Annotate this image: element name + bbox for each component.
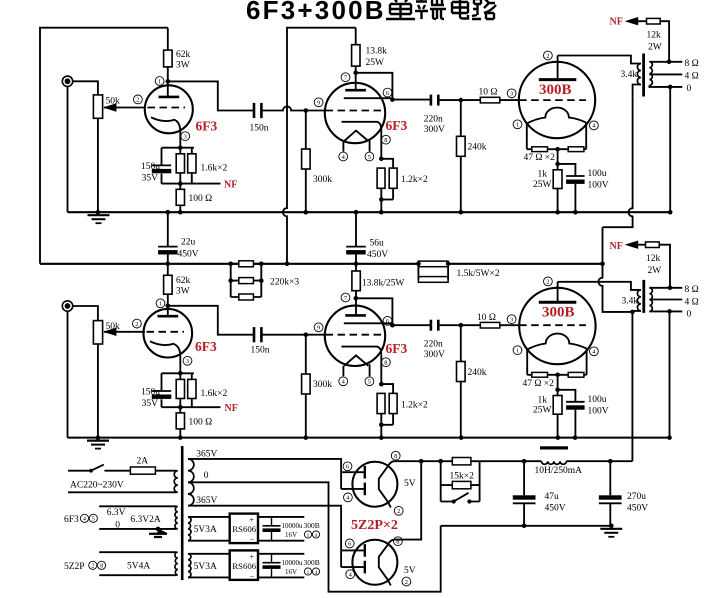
- node plate V1b junction: [353, 71, 358, 76]
- NF arrow ch1: [625, 17, 639, 25]
- label 47u 450V: [545, 492, 566, 514]
- wire grid node to 10 ohm: [461, 99, 481, 101]
- capacitor 56u 450V: [346, 247, 366, 255]
- label 62k 3W ch2: [176, 276, 191, 297]
- svg-text:6: 6: [386, 90, 389, 97]
- svg-text:10000u: 10000u: [282, 522, 304, 530]
- svg-text:10 Ω: 10 Ω: [479, 88, 498, 98]
- ground rail channel 1: [68, 211, 671, 213]
- wire PSU ground line: [441, 525, 612, 527]
- svg-text:3W: 3W: [176, 61, 190, 71]
- svg-text:2A: 2A: [137, 457, 149, 467]
- node 1.2k bottom: [379, 197, 393, 202]
- wire 150u branch ch2: [161, 373, 163, 407]
- wire 13.8k leads: [355, 28, 357, 90]
- resistor 47ohm right ch1: [568, 147, 584, 152]
- label 6F3 first triode ch1: [196, 119, 218, 134]
- label 5Z2P pins 2 8 heater: [64, 561, 106, 572]
- svg-text:100V: 100V: [588, 181, 609, 191]
- label 100u 100V ch1: [588, 169, 609, 191]
- node cathode box top ch2: [178, 371, 183, 376]
- wire HV 0 tap return: [188, 482, 441, 591]
- wire primary bottom ch1: [633, 85, 641, 97]
- label 100u 100V ch2: [588, 395, 609, 417]
- resistor 100 ohm NF (channel 2): [176, 413, 184, 429]
- wire choke to B+ riser: [566, 460, 632, 462]
- wire 12k to 8ohm tap ch1: [660, 21, 669, 62]
- svg-text:6F3: 6F3: [386, 341, 408, 356]
- pin 2 label V3a: [133, 319, 142, 328]
- wire 15k top line: [441, 460, 524, 462]
- svg-text:13.8k/25W: 13.8k/25W: [362, 279, 405, 289]
- svg-text:8 Ω: 8 Ω: [685, 59, 699, 69]
- wire 1.6k stubs: [180, 148, 192, 184]
- wire 300B plate to transformer ch2: [558, 282, 641, 290]
- svg-text:220n: 220n: [424, 340, 443, 350]
- resistor 1.6k right ch2: [188, 379, 196, 398]
- pin 1 label V1a: [155, 77, 164, 86]
- junction dots ground rail ch2: [96, 435, 672, 440]
- svg-text:2: 2: [135, 321, 138, 328]
- pin 8 label 5Z2P A: [391, 451, 400, 460]
- svg-text:300B: 300B: [304, 558, 320, 567]
- svg-text:5V3A: 5V3A: [194, 525, 217, 535]
- choke 10H/250mA coil: [542, 461, 567, 464]
- wire pot wiper from grid of V1a with arrow: [103, 103, 145, 111]
- 5Z2P B filament: [379, 545, 391, 585]
- resistor 47ohm left ch1: [532, 147, 548, 152]
- svg-text:3: 3: [510, 317, 513, 324]
- label 10H/250mA: [535, 466, 583, 476]
- 300B plate bar ch1: [539, 78, 577, 81]
- pin 4 label 5Z2P A: [344, 493, 353, 502]
- wire 100u bottom ch2: [574, 410, 576, 438]
- svg-text:300B: 300B: [542, 305, 575, 321]
- capacitor 150u 35V (channel 2): [152, 391, 172, 399]
- label 10 ohm ch1: [479, 88, 498, 98]
- svg-text:10 Ω: 10 Ω: [477, 313, 496, 323]
- label 50k ch2: [106, 322, 121, 332]
- 300B grid dashed ch1: [519, 99, 586, 101]
- rectifier RS606 #2: [230, 550, 258, 581]
- transformer T1 secondary coil ch1: [649, 62, 652, 86]
- svg-text:47 Ω ×2: 47 Ω ×2: [523, 379, 555, 389]
- node V1b output junction: [390, 97, 395, 102]
- wire V3a plate to 150n ch2: [168, 306, 253, 335]
- svg-text:1: 1: [307, 570, 310, 576]
- wire 1k bottom ch1: [557, 189, 559, 213]
- label NF ch2 cathode: [225, 403, 238, 414]
- capacitor 270u 450V: [599, 495, 622, 503]
- V1b heater lambda: [344, 131, 368, 141]
- triode V3a 6F3 envelope (channel 2): [144, 309, 193, 358]
- node 1.2k bottom ch2: [379, 423, 393, 428]
- pin 2 label 300B ch2: [544, 277, 553, 286]
- wire 150n to V1b grid with hop over B+ riser: [262, 106, 325, 110]
- svg-text:35V: 35V: [142, 174, 159, 184]
- input jack J2 (channel 2): [62, 301, 72, 311]
- resistor 13.8k/25W (channel 2): [352, 271, 360, 291]
- resistor 10 ohm grid stopper (channel 2): [480, 322, 500, 328]
- potentiometer 50k (channel 2): [93, 321, 102, 344]
- resistor 47ohm left ch2: [532, 372, 548, 377]
- wire output to 220n: [392, 99, 430, 101]
- label 220n 300V ch2: [424, 340, 445, 361]
- wire 22u leads: [167, 212, 169, 264]
- wire V1b cathode lead: [380, 130, 382, 159]
- wire 270u leads: [609, 461, 611, 526]
- svg-text:12k: 12k: [647, 31, 662, 41]
- svg-text:150u: 150u: [141, 387, 160, 397]
- V1b control grid dashed: [326, 110, 385, 112]
- wire 220k group links: [231, 264, 262, 297]
- node 15k left: [438, 459, 443, 464]
- resistor 62k 3W (channel 2): [164, 275, 173, 294]
- node 300k junction ch2: [304, 332, 309, 337]
- wire cathode bottom rail ch2: [162, 406, 197, 408]
- resistor 300k grid leak (channel 2): [302, 374, 311, 394]
- label 220n 300V: [424, 115, 445, 136]
- title CJK characters dan-duan-dian-lu: [386, 0, 496, 19]
- label 62k 3W: [176, 50, 191, 71]
- svg-text:5: 5: [368, 379, 371, 386]
- label 1.6kx2: [201, 164, 228, 174]
- wire 300B filament leads ch2: [527, 349, 586, 375]
- V1b cathode line: [342, 122, 382, 130]
- svg-text:6F3: 6F3: [195, 339, 217, 354]
- svg-text:0: 0: [204, 471, 209, 481]
- transformer T1 primary coil ch1: [637, 64, 640, 85]
- svg-text:3W: 3W: [176, 287, 190, 297]
- switch S2 15k bypass: [441, 493, 480, 504]
- svg-text:5Z2P: 5Z2P: [64, 562, 85, 572]
- resistor 13.8k 25W plate load (channel 1): [352, 45, 360, 66]
- pin 6 label 5Z2P B: [345, 539, 354, 548]
- svg-text:15k×2: 15k×2: [450, 471, 475, 481]
- V1a grid dashed line: [148, 107, 186, 109]
- resistor 220k b: [239, 278, 254, 284]
- wire 1.5k links: [418, 264, 448, 280]
- wire 47ohm links ch1: [527, 148, 586, 150]
- node 0 tap ch1: [668, 85, 673, 90]
- wire 62k leads: [167, 28, 169, 97]
- wire jack2 sleeve to ground rail: [67, 311, 69, 437]
- ground rail channel 2: [68, 437, 670, 439]
- label 1.6kx2 ch2: [201, 389, 228, 399]
- label NF ch1 cathode: [224, 180, 237, 191]
- capacitor 22u 450V: [158, 247, 178, 255]
- label 6F3 pins 4 5 heater: [64, 514, 97, 525]
- label 300B pins 1 4 heater #1: [304, 521, 320, 539]
- wire 300k ch2 leads: [305, 335, 307, 438]
- resistor 240k grid leak 300B (channel 1): [457, 136, 466, 156]
- wire 300B plate to transformer ch1: [558, 56, 641, 64]
- label 240k ch1: [468, 143, 487, 153]
- svg-text:450V: 450V: [367, 250, 388, 260]
- wire NF tap ch2: [196, 406, 220, 408]
- node 56u bottom: [354, 262, 359, 267]
- svg-text:8: 8: [384, 360, 387, 367]
- 5Z2P A filament: [379, 467, 391, 507]
- label 5V3A-2: [194, 562, 217, 572]
- transformer PT primary coil: [174, 471, 178, 493]
- wire 150u cap branch: [161, 148, 163, 184]
- svg-text:6: 6: [386, 318, 389, 325]
- wire 5Z2P A filament to B+ line: [387, 461, 440, 467]
- svg-text:12k: 12k: [646, 254, 661, 264]
- svg-text:2: 2: [546, 279, 549, 286]
- svg-text:6.3V2A: 6.3V2A: [130, 515, 160, 525]
- wire 220n to grid node: [438, 99, 461, 101]
- label 8 ohm ch1: [685, 59, 699, 69]
- wire 6.3V winding top: [99, 505, 176, 507]
- wire NF feedback tap ch1: [196, 183, 220, 185]
- wire jack2 tip to pot: [73, 306, 98, 321]
- resistor 220k c: [239, 294, 254, 300]
- svg-text:NF: NF: [610, 17, 623, 28]
- pin 6 label V3b: [383, 316, 392, 325]
- V1b screen grid line: [344, 97, 393, 99]
- resistor 240k grid leak (channel 2): [457, 362, 466, 382]
- wire 100ohm leads: [179, 184, 181, 213]
- wire 365V bottom to 5Z2P B plates: [188, 506, 341, 567]
- node 1.2k top: [379, 157, 384, 162]
- svg-text:300V: 300V: [424, 125, 445, 135]
- node 0 tap ch2: [667, 309, 672, 314]
- pin 3 label V3a: [183, 356, 192, 365]
- node 270u top: [608, 459, 613, 464]
- wire 0 tap ch2: [649, 310, 682, 312]
- wire B+ to choke: [524, 460, 541, 462]
- node 240k junction ch2: [459, 323, 464, 328]
- label 2A: [137, 457, 149, 467]
- wire arrow to 12k ch1: [638, 20, 647, 22]
- label 5V tube B: [404, 566, 416, 576]
- pin 3 label 300B ch1: [507, 89, 516, 98]
- svg-text:4: 4: [83, 517, 86, 523]
- svg-text:25W: 25W: [533, 406, 552, 416]
- resistor 1k 25W ch1: [553, 170, 562, 189]
- svg-text:25W: 25W: [533, 180, 552, 190]
- svg-text:NF: NF: [224, 180, 237, 191]
- svg-text:56u: 56u: [370, 239, 385, 249]
- wire 100ohm ch2 leads: [179, 407, 181, 437]
- capacitor 47u 450V: [513, 495, 536, 503]
- transformer T2 core: [642, 280, 645, 313]
- svg-text:300B: 300B: [304, 521, 320, 530]
- label 3.4k ch2: [622, 296, 639, 306]
- wire 5V3A-2 top: [188, 553, 230, 555]
- pin 2 label V1a: [134, 95, 143, 104]
- svg-text:300V: 300V: [424, 350, 445, 360]
- svg-text:1.6k×2: 1.6k×2: [201, 164, 228, 174]
- svg-text:4: 4: [315, 533, 318, 539]
- transformer 5V4A coil: [175, 552, 178, 575]
- label 240k ch2: [468, 368, 487, 378]
- wire cathode network top rail: [162, 147, 194, 149]
- node transformer2 primary bottom: [630, 310, 635, 315]
- label 5V3A-1: [194, 525, 217, 535]
- label 1.2kx2 ch2: [401, 400, 428, 410]
- svg-text:13.8k: 13.8k: [366, 47, 388, 57]
- resistor 1.6k left (channel 1): [176, 154, 184, 173]
- wire 300k leads: [305, 111, 307, 213]
- node 47u top: [522, 459, 527, 464]
- resistor 15k top: [452, 458, 471, 465]
- svg-text:100u: 100u: [588, 169, 607, 179]
- label 3.4k ch1: [621, 70, 638, 80]
- svg-text:2: 2: [405, 579, 408, 586]
- svg-text:240k: 240k: [468, 368, 487, 378]
- svg-text:2: 2: [91, 564, 94, 570]
- V3a grid dashed line: [147, 331, 185, 333]
- svg-text:1.2k×2: 1.2k×2: [401, 175, 428, 185]
- svg-text:8: 8: [394, 453, 397, 460]
- resistor 220k a: [239, 261, 254, 267]
- label AC220-230V: [70, 481, 124, 491]
- resistor 47ohm right ch2: [568, 372, 584, 377]
- label 0 heater: [115, 520, 120, 530]
- NF arrow ch2: [625, 241, 639, 249]
- resistor 1.5k/5W top: [418, 261, 448, 267]
- pin 7 label V3b: [341, 293, 350, 302]
- svg-text:3: 3: [186, 358, 189, 365]
- label 150n: [250, 124, 269, 134]
- label 1k 25W ch1: [533, 170, 552, 190]
- label 50k: [106, 97, 121, 107]
- node plate V3b junction: [354, 296, 359, 301]
- svg-text:NF: NF: [225, 403, 238, 414]
- svg-text:35V: 35V: [142, 399, 159, 409]
- pin 8 label V3b: [382, 358, 391, 367]
- svg-text:3.4k: 3.4k: [621, 70, 638, 80]
- label 12k 2W ch1: [647, 31, 662, 53]
- transformer HV secondary coil: [188, 459, 194, 506]
- pin 2 label 5Z2P A: [394, 506, 403, 515]
- svg-text:1.6k×2: 1.6k×2: [201, 389, 228, 399]
- pin 8 label V1b: [382, 135, 391, 144]
- svg-text:450V: 450V: [178, 250, 199, 260]
- 300B filament ch2: [527, 334, 586, 350]
- svg-text:5: 5: [368, 154, 371, 161]
- label 220kx3: [270, 277, 299, 287]
- pin 4 label V1b: [339, 152, 348, 161]
- node 1.2k top ch2: [379, 382, 384, 387]
- label 47ohm x2 ch2: [523, 379, 555, 389]
- svg-text:62k: 62k: [176, 276, 191, 286]
- wire pot2 wiper from grid of V3a with arrow: [103, 328, 145, 336]
- label 4 ohm ch1: [685, 72, 699, 82]
- svg-text:10000u: 10000u: [282, 559, 304, 567]
- label 10 ohm ch2: [477, 313, 496, 323]
- V3b screen grid line: [344, 322, 393, 324]
- node 47u bottom: [522, 524, 527, 529]
- svg-text:8: 8: [384, 137, 387, 144]
- wire 13.8k ch2 bottom lead: [355, 291, 357, 316]
- resistor 1.5k/5W bottom: [418, 277, 448, 283]
- label 47ohm x2 ch1: [524, 153, 556, 163]
- label 150u 35V ch2: [141, 387, 160, 409]
- svg-text:6: 6: [346, 464, 349, 471]
- resistor 1.6k right (channel 1): [188, 154, 196, 173]
- svg-text:5V3A: 5V3A: [194, 562, 217, 572]
- wire 150n2 to V3b grid: [262, 334, 325, 336]
- label 1.2kx2 ch1: [401, 175, 428, 185]
- pin 6 label 5Z2P A: [343, 462, 352, 471]
- label 13.8k/25W ch2: [362, 279, 405, 289]
- svg-text:6F3: 6F3: [64, 515, 79, 525]
- transformer 6.3V coil: [175, 506, 178, 529]
- svg-text:1: 1: [307, 533, 310, 539]
- svg-text:300B: 300B: [539, 82, 572, 98]
- node 300k junction: [304, 108, 309, 113]
- wire to 100u ch1: [558, 164, 576, 176]
- V3a cathode: [150, 341, 180, 356]
- ground symbol channel 1: [88, 215, 110, 223]
- junction dots on ground rail ch1: [96, 210, 673, 215]
- wire 12k to 8ohm tap ch2: [659, 245, 670, 288]
- svg-text:1k: 1k: [538, 170, 548, 180]
- 300B filament ch1: [527, 108, 586, 124]
- pin 9 label V1b: [314, 98, 323, 107]
- svg-text:6F3: 6F3: [196, 119, 218, 134]
- wire cathode node down ch1: [557, 149, 559, 170]
- pin 7 label V1b: [341, 73, 350, 82]
- wire primary bottom ch2: [633, 311, 641, 312]
- V3b cathode line: [342, 347, 382, 355]
- resistor 62k 3W plate load (channel 1): [164, 50, 173, 67]
- wire V3b cathode lead ch2: [380, 355, 382, 384]
- capacitor 150n (channel 2): [254, 327, 261, 342]
- label 56u 450V: [367, 239, 388, 260]
- V1b heater stub pin4: [342, 141, 344, 152]
- pin 4 label 300B ch2: [590, 347, 599, 356]
- svg-text:4: 4: [315, 570, 318, 576]
- svg-text:47u: 47u: [545, 492, 560, 502]
- svg-text:1.5k/5W×2: 1.5k/5W×2: [457, 269, 500, 279]
- wire 5Z2P B filament riser: [387, 461, 421, 545]
- wire V1a plate to 150n coupling cap: [168, 81, 253, 110]
- wire 0 tap ch1: [649, 85, 682, 87]
- svg-text:RS606: RS606: [232, 524, 257, 534]
- svg-text:1: 1: [516, 122, 519, 129]
- capacitor 100u 100V ch1: [566, 176, 585, 184]
- node cathode box bottom: [178, 181, 183, 186]
- nodes 220k group: [228, 262, 263, 283]
- svg-text:100V: 100V: [588, 406, 609, 416]
- wire 5V3A-1 top: [188, 516, 230, 518]
- pin 6 label V1b: [383, 88, 392, 97]
- V3b heater stub pin5: [369, 364, 371, 376]
- svg-text:365V: 365V: [196, 449, 217, 459]
- label 0 HV: [204, 471, 209, 481]
- svg-text:300k: 300k: [313, 175, 332, 185]
- svg-text:5V: 5V: [404, 566, 416, 576]
- svg-text:25W: 25W: [366, 58, 385, 68]
- 300B grid dashed ch2: [519, 324, 586, 326]
- wire 5V4A winding bottom: [99, 574, 176, 576]
- label 13.8k 25W: [366, 47, 388, 69]
- wire 300B filament leads down ch1: [527, 123, 586, 150]
- wire fuse to primary: [155, 470, 176, 472]
- wire 47ohm links ch2: [527, 374, 586, 376]
- wire cathode network top rail ch2: [162, 372, 194, 374]
- wire 15k block sides: [441, 461, 480, 501]
- svg-text:−: −: [250, 536, 255, 545]
- wire 1.2k top link: [381, 159, 393, 168]
- wire jack tip to volume pot: [73, 81, 98, 95]
- node 47ohm center ch1: [555, 147, 560, 152]
